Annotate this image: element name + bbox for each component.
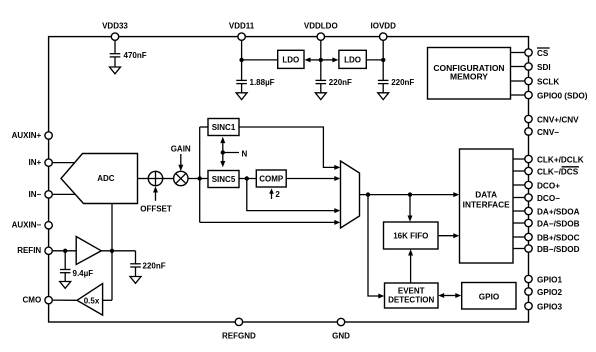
label 2 with up arrow [269, 188, 280, 199]
wire VDDLDO node to LDO2 with right arrowhead [321, 57, 339, 62]
multiplier (gain) [174, 171, 188, 185]
pin AUXIN+ [12, 131, 53, 140]
node SINC5 output [245, 176, 249, 180]
ground (220nF VDDLDO) [315, 93, 326, 100]
wire IOVDD down [382, 37, 384, 81]
wire data interface to DA- [513, 222, 525, 224]
pin DCO- [525, 194, 560, 203]
pin AUXIN- [12, 221, 53, 230]
wire 0.5x to CMO [53, 299, 77, 301]
svg-text:AUXIN+: AUXIN+ [12, 131, 42, 140]
svg-text:GPIO0 (SDO): GPIO0 (SDO) [537, 91, 588, 100]
svg-text:1.88µF: 1.88µF [250, 78, 275, 87]
wire event detection to GPIO double arrow [438, 293, 461, 298]
svg-text:DATA: DATA [475, 189, 497, 199]
svg-text:SINC5: SINC5 [212, 175, 236, 184]
svg-text:REFGND: REFGND [222, 332, 256, 341]
wire into 0.5x amp [103, 299, 112, 301]
wire ADC bottom to 0.5x input [111, 204, 113, 301]
svg-text:IN−: IN− [29, 190, 42, 199]
svg-text:COMP: COMP [259, 174, 284, 183]
svg-text:CNV−: CNV− [537, 128, 559, 137]
capacitor 220nF (REFIN) [130, 251, 166, 277]
label GAIN with down arrow [171, 144, 191, 171]
wire data interface to DCO- [513, 197, 525, 199]
wire LDO2 to IOVDD node [366, 59, 383, 61]
wire FIFO to data interface [438, 233, 459, 238]
wire mux output to data interface [360, 192, 460, 197]
svg-text:DA+/SDOA: DA+/SDOA [537, 207, 580, 216]
node mux output [366, 192, 370, 196]
pin CNV- [525, 128, 559, 137]
svg-text:IOVDD: IOVDD [371, 22, 397, 31]
pin CLK-/DCS [525, 167, 579, 177]
svg-text:DB−/SDOD: DB−/SDOD [537, 245, 580, 254]
wire data interface to CLK- [513, 170, 525, 172]
svg-text:REFIN: REFIN [17, 246, 41, 255]
wire summer to multiplier [163, 178, 174, 180]
wire IN+ to ADC [53, 162, 76, 164]
svg-text:LDO: LDO [344, 55, 361, 64]
capacitor 470nF [110, 51, 147, 67]
svg-text:DCO−: DCO− [537, 194, 560, 203]
wire data interface to DB+ [513, 236, 525, 238]
svg-text:CS: CS [537, 49, 549, 58]
wire bypass bus vertical [199, 127, 201, 222]
svg-text:220nF: 220nF [143, 262, 166, 271]
capacitor 220nF (VDDLDO) [316, 78, 353, 93]
wire event detection to FIFO with up arrow [408, 249, 413, 283]
wire node to LDO1 [242, 59, 278, 61]
regulator LDO2 [339, 50, 366, 68]
svg-text:N: N [242, 149, 248, 158]
wire buffer output across to cap [101, 250, 135, 252]
wire data interface to DB- [513, 248, 525, 250]
svg-text:220nF: 220nF [329, 78, 352, 87]
pin SCLK [525, 77, 560, 86]
pin CNV+/CNV [525, 115, 579, 124]
svg-text:CMO: CMO [23, 295, 42, 304]
pin GPIO1 [525, 275, 563, 284]
pin CMO [23, 295, 53, 304]
svg-text:DCO+: DCO+ [537, 181, 560, 190]
svg-text:2: 2 [275, 190, 280, 199]
filter SINC5 [208, 171, 239, 188]
wire data interface to DA+ [513, 210, 525, 212]
node IOVDD [381, 58, 385, 62]
ground (1.88uF) [236, 93, 247, 100]
svg-text:16K FIFO: 16K FIFO [393, 231, 428, 240]
block DATA INTERFACE [460, 149, 514, 263]
svg-text:GPIO2: GPIO2 [537, 288, 562, 297]
pin SDI [525, 63, 551, 72]
ground (220nF REFIN) [130, 277, 141, 284]
svg-text:GND: GND [332, 332, 350, 341]
block 16K FIFO [384, 222, 439, 249]
svg-text:CNV+/CNV: CNV+/CNV [537, 115, 579, 124]
pin GND [332, 318, 350, 340]
capacitor 9.4uF [60, 251, 93, 282]
pin CS [525, 48, 550, 58]
pin DA+/SDOA [525, 207, 580, 216]
wire VDDLDO down [320, 37, 322, 81]
svg-text:0.5x: 0.5x [84, 296, 100, 305]
capacitor 220nF (IOVDD) [378, 78, 415, 93]
buffer amplifier (reference) [76, 237, 101, 265]
wire to FIFO with down arrow [408, 195, 413, 222]
ground (220nF IOVDD) [378, 93, 389, 100]
pin REFGND [222, 318, 256, 340]
svg-text:VDD33: VDD33 [102, 22, 128, 31]
svg-text:SDI: SDI [537, 63, 551, 72]
ADC block U1 [61, 154, 138, 204]
wire REFIN to buffer [53, 250, 77, 252]
pin DCO+ [525, 181, 560, 190]
ground (470nF) [110, 67, 121, 74]
wire data interface to DCO+ [513, 184, 525, 186]
svg-text:CLK−/DCS: CLK−/DCS [537, 167, 579, 176]
pin REFIN [17, 246, 52, 255]
svg-text:SCLK: SCLK [537, 77, 559, 86]
wire VDD11 down [241, 37, 243, 81]
decimation N double arrow [220, 137, 239, 168]
block COMP [256, 170, 286, 187]
svg-text:ADC: ADC [97, 174, 115, 183]
svg-text:220nF: 220nF [391, 78, 414, 87]
block GPIO [462, 283, 516, 310]
wire config memory to GPIO0 [511, 94, 526, 96]
chip boundary [49, 37, 529, 322]
svg-text:MEMORY: MEMORY [450, 71, 488, 81]
block EVENT DETECTION [385, 283, 439, 308]
wire VDDLDO node to LDO1 with left arrowhead [305, 57, 321, 62]
filter SINC1 [208, 119, 239, 136]
wire config memory to SCLK [511, 80, 526, 82]
svg-text:EVENT: EVENT [398, 286, 425, 295]
node bus tap [198, 176, 202, 180]
amplifier 0.5x [77, 284, 103, 316]
wire SINC1 to mux [239, 127, 340, 170]
pin IOVDD [371, 22, 397, 41]
capacitor 1.88uF [236, 78, 274, 93]
wire mux output to event detection [368, 195, 384, 299]
node VDDLDO [319, 58, 323, 62]
svg-text:SINC1: SINC1 [212, 123, 236, 132]
wire ADC to offset summer [138, 178, 149, 180]
pin VDD33 [102, 22, 128, 41]
svg-text:GAIN: GAIN [171, 144, 191, 153]
svg-text:LDO: LDO [282, 55, 299, 64]
svg-text:DA−/SDOB: DA−/SDOB [537, 219, 580, 228]
svg-text:DB+/SDOC: DB+/SDOC [537, 233, 580, 242]
svg-text:DETECTION: DETECTION [388, 295, 434, 304]
ground (9.4uF) [60, 282, 71, 289]
wire SINC5 direct to mux [247, 179, 340, 214]
pin DA-/SDOB [525, 219, 580, 228]
svg-text:VDD11: VDD11 [229, 22, 255, 31]
wire bus to SINC1 input [200, 126, 208, 128]
svg-text:GPIO: GPIO [479, 293, 500, 302]
configuration memory block [428, 48, 511, 100]
wire data interface to CLK+ [513, 158, 525, 160]
svg-text:OFFSET: OFFSET [140, 204, 172, 213]
wire SINC5 to COMP [239, 178, 256, 180]
svg-text:9.4µF: 9.4µF [73, 269, 94, 278]
node REFIN [63, 249, 67, 253]
wire IN- to ADC [53, 193, 77, 195]
pin VDD11 [229, 22, 255, 41]
pin VDDLDO [304, 22, 338, 41]
node VDD11 [239, 58, 243, 62]
node buffer output [110, 249, 114, 253]
wire bypass to mux [200, 220, 341, 225]
svg-text:GPIO1: GPIO1 [537, 275, 562, 284]
wire config memory to SDI [511, 66, 526, 68]
pin DB-/SDOD [525, 245, 580, 254]
pin IN+ [29, 158, 53, 167]
node FIFO tap [408, 192, 412, 196]
wire multiplier to SINC5 [188, 178, 208, 180]
regulator LDO1 [278, 50, 304, 68]
wire COMP to mux [286, 176, 340, 181]
pin DB+/SDOC [525, 233, 580, 242]
mux [341, 161, 360, 228]
svg-text:CLK+/DCLK: CLK+/DCLK [537, 155, 584, 164]
svg-text:GPIO3: GPIO3 [537, 302, 562, 311]
svg-text:AUXIN−: AUXIN− [12, 221, 42, 230]
label OFFSET with up arrow [140, 186, 172, 213]
svg-text:VDDLDO: VDDLDO [304, 22, 338, 31]
pin GPIO3 [525, 302, 563, 311]
svg-text:470nF: 470nF [124, 51, 147, 60]
pin IN- [29, 190, 53, 199]
wire config memory to CS [511, 52, 526, 54]
pin GPIO0 (SDO) [525, 91, 588, 100]
wire VDD33 to capacitor [114, 37, 116, 54]
pin GPIO2 [525, 288, 563, 297]
pin CLK+/DCLK [525, 155, 584, 164]
summer (offset adder) [148, 171, 162, 185]
svg-text:IN+: IN+ [29, 158, 42, 167]
svg-text:INTERFACE: INTERFACE [463, 199, 510, 209]
